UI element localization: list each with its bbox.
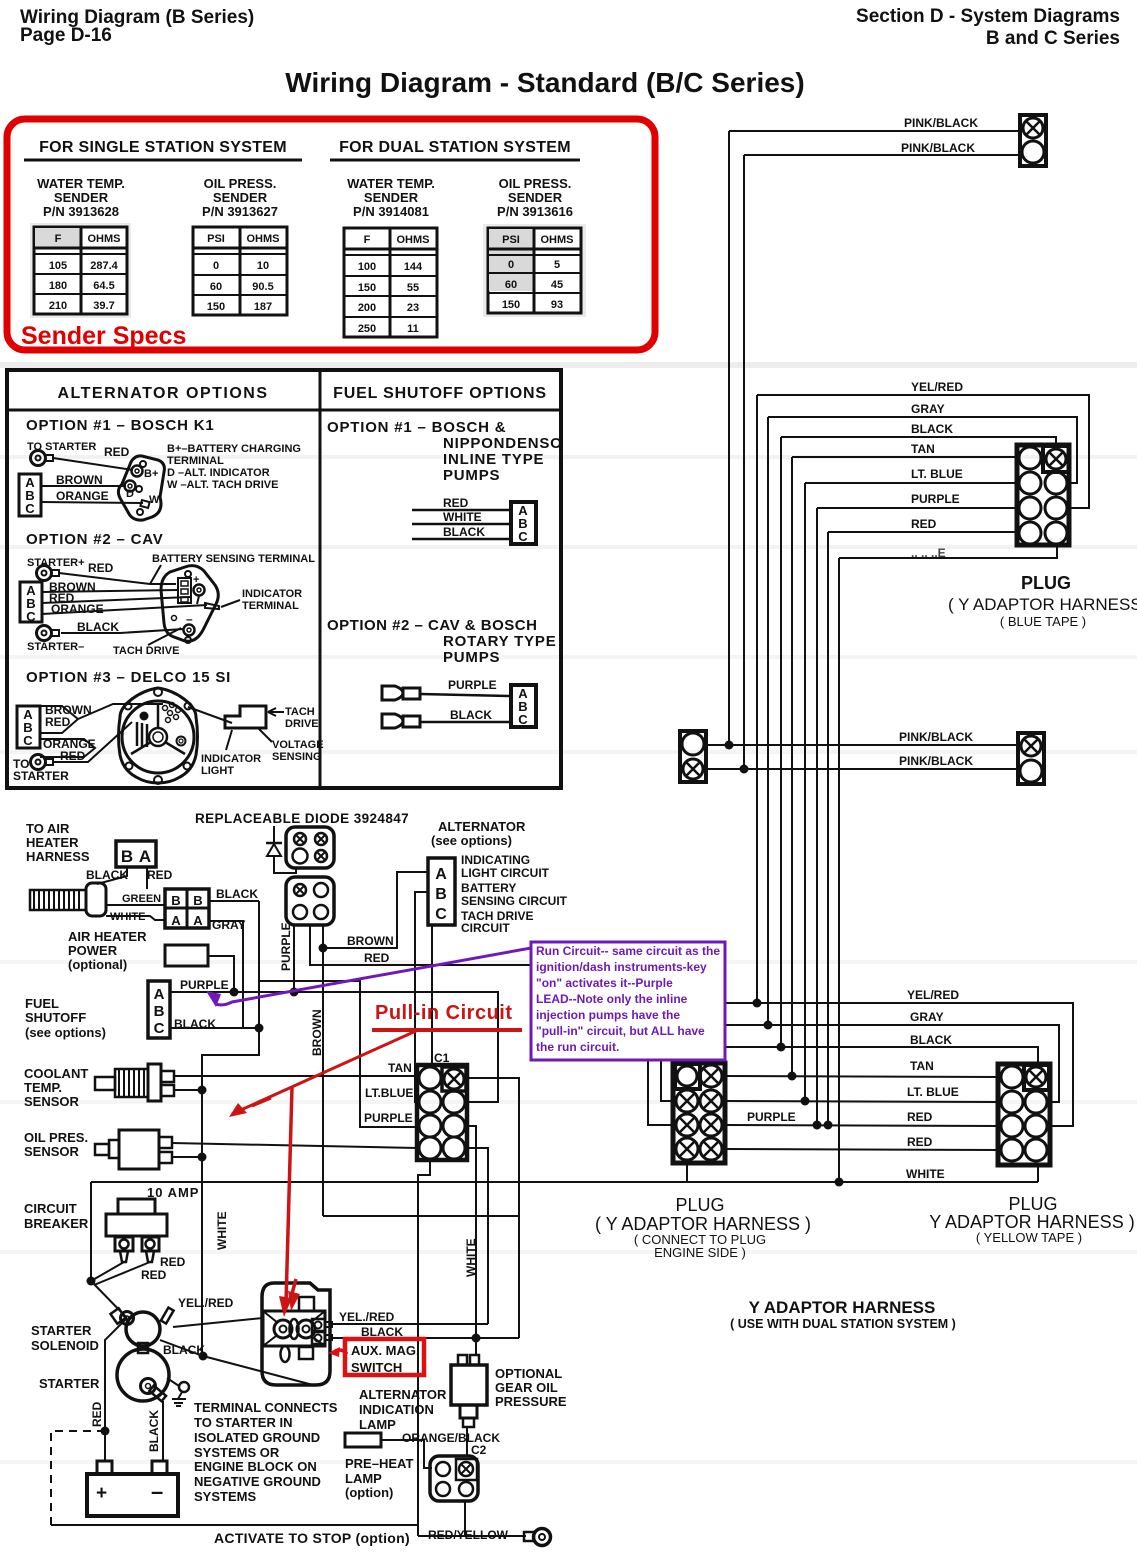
wire C2 bottom to red/yellow: [464, 1501, 466, 1536]
svg-text:200: 200: [358, 302, 376, 314]
ground terminal: [167, 1378, 189, 1406]
svg-text:–: –: [151, 1479, 163, 1504]
svg-text:OPTION #1 – BOSCH &: OPTION #1 – BOSCH &: [327, 419, 506, 436]
wire gray down: [209, 921, 243, 1028]
purple leader arrow to purple lead: [206, 948, 531, 1007]
battery: [87, 1461, 178, 1516]
wire pink/black top1: [729, 130, 1020, 132]
heading: FOR SINGLE STATION SYSTEM: [24, 139, 302, 160]
svg-text:SENDER: SENDER: [508, 190, 563, 205]
svg-text:OPTION #1 – BOSCH K1: OPTION #1 – BOSCH K1: [26, 417, 215, 434]
wire coolant top (tan): [174, 1075, 417, 1077]
wire breaker diagonals: [91, 1262, 150, 1318]
junction dot oil/common: [198, 1153, 207, 1162]
svg-text:BATTERY: BATTERY: [461, 881, 516, 895]
svg-text:39.7: 39.7: [93, 300, 114, 312]
svg-text:ALTERNATOR: ALTERNATOR: [438, 819, 526, 834]
svg-text:PURPLE: PURPLE: [448, 678, 497, 692]
svg-text:RED: RED: [364, 951, 390, 965]
label TACH DRIVE: [268, 706, 319, 730]
junction dot black common: [199, 1352, 208, 1361]
svg-text:STARTER: STARTER: [13, 769, 69, 783]
svg-text:C: C: [435, 906, 447, 923]
svg-text:93: 93: [551, 299, 563, 311]
svg-text:A: A: [154, 986, 165, 1003]
svg-text:SENDER: SENDER: [213, 190, 268, 205]
label: OIL PRESS. SENDER P/N 3913627: [202, 176, 278, 219]
connector ABC (option2): [20, 582, 42, 624]
wire yel/red lower: [725, 1003, 1073, 1126]
caption plug yellow tape: [929, 1194, 1134, 1245]
svg-text:BREAKER: BREAKER: [24, 1216, 89, 1231]
svg-text:STARTER+: STARTER+: [27, 557, 85, 569]
HEADER: [20, 6, 1120, 98]
svg-text:ENGINE BLOCK ON: ENGINE BLOCK ON: [194, 1459, 317, 1474]
svg-text:ACTIVATE TO STOP (option): ACTIVATE TO STOP (option): [214, 1530, 410, 1546]
wire into engine plug row3 from left: [648, 1058, 673, 1125]
svg-text:250: 250: [358, 323, 376, 335]
circuit breaker: [106, 1199, 167, 1262]
wire C1 row1 to black vertical: [466, 1078, 519, 1338]
svg-text:INDICATOR: INDICATOR: [242, 588, 302, 600]
svg-text:INDICATING: INDICATING: [461, 853, 530, 867]
svg-text:PRESSURE: PRESSURE: [495, 1394, 567, 1409]
optional gear oil pressure sender: [451, 1355, 487, 1427]
svg-text:WATER TEMP.: WATER TEMP.: [37, 176, 125, 191]
alternator Delco 15 SI body: [119, 688, 198, 784]
svg-text:OPTIONAL: OPTIONAL: [495, 1366, 562, 1381]
svg-text:180: 180: [49, 280, 67, 292]
svg-text:Sender Specs: Sender Specs: [21, 322, 186, 350]
wire black fuel shutoff: [170, 1027, 259, 1029]
svg-text:LIGHT: LIGHT: [201, 765, 234, 777]
svg-text:150: 150: [207, 301, 225, 313]
svg-text:WHITE: WHITE: [215, 1211, 229, 1250]
connector ABC (option1): [19, 474, 41, 516]
wire red starter+: [59, 573, 176, 584]
junction dot red battery: [101, 1427, 110, 1436]
svg-text:PURPLE: PURPLE: [180, 978, 229, 992]
connector C2: [430, 1456, 478, 1501]
svg-text:YEL/RED: YEL/RED: [911, 380, 963, 394]
svg-text:OIL PRESS.: OIL PRESS.: [499, 176, 572, 191]
svg-text:TACH: TACH: [285, 706, 315, 718]
label ALTERNATOR INDICATION LAMP: [359, 1387, 447, 1432]
svg-text:OIL PRESS.: OIL PRESS.: [204, 176, 277, 191]
junction dot red row3: [824, 1121, 833, 1130]
wire bundle vertical gray: [767, 417, 769, 1025]
svg-text:B: B: [171, 893, 180, 908]
wire brown: [41, 485, 126, 487]
wire brown vertical long: [322, 925, 324, 1216]
svg-text:STARTER: STARTER: [31, 1323, 92, 1338]
svg-text:C: C: [518, 712, 528, 727]
ring terminal starter-: [37, 626, 60, 641]
svg-text:PSI: PSI: [207, 233, 225, 245]
svg-text:LT.BLUE: LT.BLUE: [365, 1086, 413, 1100]
table: water temp sender 3914081 (4 rows): [344, 228, 437, 337]
aux mag switch: [262, 1283, 332, 1385]
wire lt blue upper: [805, 482, 1017, 484]
svg-text:B and C Series: B and C Series: [986, 28, 1120, 49]
svg-text:210: 210: [49, 300, 67, 312]
svg-text:RED: RED: [160, 1255, 186, 1269]
wire heater power to purple node: [208, 956, 234, 992]
SENDER SPECS BOX: [7, 119, 655, 350]
svg-text:C: C: [154, 1020, 165, 1037]
svg-text:CIRCUIT: CIRCUIT: [461, 921, 510, 935]
wire engine plug bottom to white row: [686, 1163, 688, 1182]
svg-text:RED: RED: [907, 1135, 933, 1149]
pre-heat lamp: [345, 1433, 381, 1447]
svg-text:PSI: PSI: [502, 234, 520, 246]
svg-text:BLACK: BLACK: [443, 525, 485, 539]
svg-text:Pull-in Circuit: Pull-in Circuit: [375, 1002, 513, 1024]
wire C1 row4 to yel/red vertical: [467, 1148, 488, 1324]
red arrow vertical to mag switch: [279, 1087, 300, 1317]
wire black lower: [725, 1047, 1038, 1064]
svg-text:injection pumps have the: injection pumps have the: [536, 1008, 680, 1022]
table: oil press sender 3913616: [483, 224, 586, 317]
svg-text:TAN: TAN: [388, 1061, 412, 1075]
wire solenoid to mag switch: [173, 1318, 263, 1327]
svg-text:the run circuit.: the run circuit.: [536, 1040, 619, 1054]
svg-text:144: 144: [404, 261, 423, 273]
wire C1 bottom to stop wire: [418, 1160, 430, 1536]
svg-text:WHITE: WHITE: [464, 1238, 478, 1277]
wire solenoid black to switch bottom: [160, 1340, 313, 1385]
connector mid-right 2-pin: [1018, 733, 1044, 784]
svg-text:( Y ADAPTOR HARNESS ): ( Y ADAPTOR HARNESS ): [595, 1214, 811, 1234]
svg-text:"pull-in" circuit, but ALL hav: "pull-in" circuit, but ALL have: [536, 1024, 705, 1038]
svg-text:GREEN: GREEN: [122, 893, 161, 905]
connector mid-left 2-pin: [680, 731, 706, 782]
svg-text:150: 150: [502, 299, 520, 311]
svg-text:OHMS: OHMS: [541, 234, 574, 246]
svg-text:OHMS: OHMS: [397, 234, 430, 246]
wire starter to battery minus: [162, 1401, 164, 1461]
svg-text:W –ALT. TACH DRIVE: W –ALT. TACH DRIVE: [167, 479, 278, 491]
svg-text:CIRCUIT: CIRCUIT: [24, 1201, 77, 1216]
wire black fuel1: [412, 538, 511, 541]
svg-text:10: 10: [257, 260, 269, 272]
wire purple diode down: [293, 925, 295, 992]
label FUEL SHUTOFF (see options): [25, 996, 106, 1040]
svg-text:C2: C2: [471, 1443, 487, 1457]
LEFT BOTTOM DIAGRAM: [24, 811, 687, 1546]
svg-text:RED: RED: [45, 715, 71, 729]
wire solenoid to battery plus: [105, 1318, 127, 1461]
svg-text:(optional): (optional): [68, 957, 127, 972]
wire alternator to tach drive block: [188, 707, 232, 723]
wire alternator B battery sensing down: [415, 892, 428, 1102]
svg-text:VOLTAGE: VOLTAGE: [272, 739, 324, 751]
svg-text:SENDER: SENDER: [364, 190, 419, 205]
label: WATER TEMP. SENDER P/N 3914081: [347, 176, 435, 219]
svg-text:23: 23: [407, 302, 419, 314]
red arrow diagonal to pull-in wire: [229, 1030, 418, 1117]
svg-text:RED: RED: [443, 496, 469, 510]
svg-text:SHUTOFF: SHUTOFF: [25, 1010, 86, 1025]
svg-text:BLACK: BLACK: [216, 887, 258, 901]
wire vertical pink/black drop1: [728, 131, 730, 745]
svg-text:SENSING: SENSING: [272, 751, 322, 763]
svg-text:BROWN: BROWN: [310, 1009, 324, 1056]
svg-text:LAMP: LAMP: [359, 1417, 396, 1432]
label VOLTAGE SENSING: [258, 728, 324, 763]
svg-text:"on" activates it--Purple: "on" activates it--Purple: [536, 976, 673, 990]
ring terminal starter+: [37, 566, 60, 581]
wire black mag switch: [332, 1337, 519, 1339]
replaceable diode connector (upper): [286, 827, 334, 868]
svg-text:(see options): (see options): [25, 1025, 106, 1040]
label STARTER SOLENOID: [31, 1323, 99, 1353]
svg-text:OHMS: OHMS: [88, 233, 121, 245]
starter motor: [117, 1349, 169, 1401]
svg-text:+: +: [96, 1483, 107, 1504]
table: oil press sender 3913627: [193, 227, 287, 315]
junction dot purple/heater: [230, 988, 239, 997]
caption plug engine side: [595, 1195, 811, 1260]
svg-text:OPTION #2 – CAV: OPTION #2 – CAV: [26, 531, 164, 548]
svg-text:FUEL: FUEL: [25, 996, 59, 1011]
svg-text:REPLACEABLE DIODE 3924847: REPLACEABLE DIODE 3924847: [195, 811, 409, 826]
svg-text:Section D - System Diagrams: Section D - System Diagrams: [856, 6, 1120, 27]
spade connector pair (purple): [382, 686, 420, 700]
svg-text:SOLENOID: SOLENOID: [31, 1338, 99, 1353]
svg-text:ALTERNATOR: ALTERNATOR: [359, 1387, 447, 1402]
svg-text:AUX. MAG.: AUX. MAG.: [351, 1343, 420, 1358]
wire black to tach drive: [61, 629, 184, 633]
svg-text:INDICATION: INDICATION: [359, 1402, 434, 1417]
svg-text:Wiring Diagram - Standard (B/C: Wiring Diagram - Standard (B/C Series): [285, 67, 804, 98]
svg-text:TERMINAL: TERMINAL: [167, 455, 224, 467]
svg-text:ORANGE: ORANGE: [56, 489, 109, 503]
svg-text:BLACK: BLACK: [910, 1033, 952, 1047]
svg-text:A: A: [139, 847, 151, 866]
wire bundle vertical red: [827, 532, 829, 1125]
wire oil sensor bottom: [172, 1156, 202, 1158]
red arrow to mag switch left: [328, 1347, 347, 1357]
red box AUX. MAG. SWITCH: [345, 1339, 424, 1375]
wire orange: [41, 502, 143, 503]
svg-text:GRAY: GRAY: [911, 402, 945, 416]
svg-text:LT. BLUE: LT. BLUE: [911, 467, 963, 481]
svg-text:PINK/BLACK: PINK/BLACK: [899, 730, 973, 744]
wire bundle brown/red chevron: [40, 706, 78, 733]
red underline pull-in: [372, 1028, 522, 1032]
junction dot white row: [835, 1178, 844, 1187]
svg-text:YEL./RED: YEL./RED: [339, 1310, 395, 1324]
svg-text:WHITE: WHITE: [443, 510, 482, 524]
svg-text:INDICATOR: INDICATOR: [201, 753, 261, 765]
svg-text:( USE WITH DUAL STATION SYSTEM: ( USE WITH DUAL STATION SYSTEM ): [730, 1317, 956, 1331]
svg-text:FOR DUAL STATION SYSTEM: FOR DUAL STATION SYSTEM: [339, 139, 571, 156]
leader tach drive: [148, 628, 181, 645]
svg-text:287.4: 287.4: [90, 260, 118, 272]
svg-text:D –ALT. INDICATOR: D –ALT. INDICATOR: [167, 467, 270, 479]
wire bundle vertical black: [780, 437, 782, 1047]
svg-text:SENDER: SENDER: [54, 190, 109, 205]
heading: FOR DUAL STATION SYSTEM: [330, 139, 580, 160]
wire gray upper: [768, 417, 1077, 483]
wire yellow plug bottom drop: [1037, 1165, 1039, 1182]
connector ABC (option3): [17, 706, 40, 748]
wire into engine plug row2 from left: [661, 1058, 673, 1101]
svg-text:P/N 3913627: P/N 3913627: [202, 204, 278, 219]
svg-text:150: 150: [358, 282, 376, 294]
wire red diode: [310, 925, 531, 965]
ring terminal stop: [524, 1529, 551, 1546]
wire bundle vertical purple: [816, 508, 818, 1125]
svg-text:D: D: [126, 488, 134, 500]
wire pink/black mid2: [706, 768, 1018, 770]
svg-text:B+–BATTERY CHARGING: B+–BATTERY CHARGING: [167, 443, 301, 455]
svg-text:ENGINE SIDE ): ENGINE SIDE ): [654, 1245, 746, 1260]
svg-text:AIR HEATER: AIR HEATER: [68, 929, 147, 944]
plug Y adaptor harness yellow tape (lower right): [998, 1064, 1050, 1165]
svg-text:RED: RED: [907, 1110, 933, 1124]
table: water temp sender 3913628: [30, 223, 131, 318]
label BATTERY SENSING CIRCUIT: [461, 881, 568, 908]
wire white row lower: [687, 1181, 1038, 1183]
label INDICATING LIGHT CIRCUIT: [461, 853, 550, 880]
connector ABC (alternator main): [428, 858, 455, 925]
wire black upper: [781, 437, 1056, 445]
legend option1: [167, 443, 301, 491]
svg-text:ignition/dash instruments-key: ignition/dash instruments-key: [536, 960, 707, 974]
wire orange chevron: [40, 739, 95, 757]
caption plug blue tape: [948, 573, 1137, 629]
svg-text:BROWN: BROWN: [56, 473, 103, 487]
svg-text:LT. BLUE: LT. BLUE: [907, 1085, 959, 1099]
svg-text:BLACK: BLACK: [77, 620, 119, 634]
svg-text:60: 60: [505, 279, 517, 291]
wire red to alternator B+: [53, 458, 133, 470]
svg-text:(option): (option): [345, 1485, 393, 1500]
label: WATER TEMP. SENDER P/N 3913628: [37, 176, 125, 219]
wire lt blue lower: [725, 1101, 998, 1102]
svg-text:PURPLE: PURPLE: [364, 1111, 413, 1125]
svg-text:A: A: [171, 913, 181, 928]
svg-text:C: C: [23, 733, 33, 748]
svg-text:( BLUE TAPE ): ( BLUE TAPE ): [1000, 614, 1086, 629]
svg-text:TERMINAL CONNECTS: TERMINAL CONNECTS: [194, 1400, 338, 1415]
label INDICATOR LIGHT: [201, 730, 261, 777]
junction dot breaker: [87, 1277, 96, 1286]
junction dot black fuel: [255, 1024, 264, 1033]
wire activate to stop: [51, 1524, 418, 1526]
label INDICATOR TERMINAL: [221, 588, 302, 612]
wire red fuel1: [412, 509, 511, 512]
spade connector pair (black): [382, 714, 420, 728]
options header divider: [7, 409, 561, 412]
svg-text:WATER TEMP.: WATER TEMP.: [347, 176, 435, 191]
svg-text:LEAD--Note only the inline: LEAD--Note only the inline: [536, 992, 688, 1006]
svg-text:STARTER–: STARTER–: [27, 641, 84, 653]
svg-text:(see options): (see options): [431, 833, 512, 848]
wire dashed activate-stop branch: [51, 1431, 105, 1525]
wire white upper: [839, 545, 1057, 558]
plug Y adaptor harness engine side (lower left): [673, 1063, 725, 1163]
svg-text:P/N 3914081: P/N 3914081: [353, 204, 429, 219]
wire tan upper: [792, 456, 1017, 458]
svg-text:RED: RED: [147, 868, 173, 882]
svg-text:FOR SINGLE STATION SYSTEM: FOR SINGLE STATION SYSTEM: [39, 139, 287, 156]
svg-text:B: B: [121, 847, 133, 866]
ring terminal to starter (option1): [31, 451, 54, 466]
svg-text:HEATER: HEATER: [26, 835, 79, 850]
svg-text:SENSING CIRCUIT: SENSING CIRCUIT: [461, 894, 568, 908]
svg-text:B: B: [193, 893, 202, 908]
svg-text:COOLANT: COOLANT: [24, 1066, 88, 1081]
wire C1 row3 to white vertical: [467, 1126, 476, 1355]
connector B A (air heater harness): [116, 841, 156, 867]
wire red/yellow: [418, 1535, 526, 1537]
svg-text:YEL/RED: YEL/RED: [907, 988, 959, 1002]
plug Y adaptor harness (blue tape): [1017, 445, 1069, 545]
svg-text:100: 100: [358, 261, 376, 273]
caption Y adaptor harness bottom: [730, 1298, 956, 1331]
air heater plug (threaded): [30, 883, 106, 916]
svg-text:SENSOR: SENSOR: [24, 1144, 80, 1159]
svg-text:TAN: TAN: [910, 1059, 934, 1073]
wire bundle vertical lt blue: [804, 483, 806, 1101]
svg-text:TAN: TAN: [911, 442, 935, 456]
wire branch to C1 purple row3: [259, 981, 417, 1127]
label COOLANT TEMP. SENSOR: [24, 1066, 88, 1109]
title: fuel OPTION #1: [327, 419, 563, 484]
svg-text:SYSTEMS: SYSTEMS: [194, 1489, 256, 1504]
wire tan lower: [725, 1076, 998, 1077]
svg-text:GEAR OIL: GEAR OIL: [495, 1380, 558, 1395]
svg-text:B: B: [154, 1003, 165, 1020]
wire red to alternator lower: [53, 722, 132, 762]
svg-text:TO STARTER IN: TO STARTER IN: [194, 1415, 292, 1430]
svg-text:NIPPONDENSO: NIPPONDENSO: [443, 435, 563, 452]
leader battery sensing: [150, 565, 161, 584]
alternator Bosch K1 body: [118, 456, 164, 520]
wire pink/black top2: [744, 154, 1020, 156]
wire red row4 lower: [725, 1149, 998, 1150]
replaceable diode connector (lower): [286, 877, 334, 925]
junction dot black lower: [777, 1043, 786, 1052]
svg-text:SWITCH: SWITCH: [351, 1360, 402, 1375]
svg-text:F: F: [364, 234, 371, 246]
svg-text:POWER: POWER: [68, 943, 118, 958]
wire bundle vertical yel/red: [756, 395, 758, 1003]
svg-text:RED: RED: [911, 517, 937, 531]
svg-text:5: 5: [554, 259, 560, 271]
OPTIONS BOX: [7, 370, 563, 788]
svg-text:INLINE TYPE: INLINE TYPE: [443, 451, 544, 468]
wire purple run circuit: [170, 992, 498, 1102]
svg-text:DRIVE: DRIVE: [285, 718, 319, 730]
wire white (air heater): [106, 916, 165, 920]
label OPTIONAL GEAR OIL PRESSURE: [495, 1366, 567, 1409]
purple run circuit note box: [531, 942, 725, 1060]
junction dot yel/red lower: [753, 999, 762, 1008]
wire bundle vertical tan: [791, 457, 793, 1076]
wire lamp to C2: [381, 1440, 432, 1468]
svg-text:187: 187: [254, 301, 272, 313]
wire BA-B to heater: [97, 867, 127, 884]
starter solenoid: [110, 1308, 173, 1353]
svg-text:ALTERNATOR OPTIONS: ALTERNATOR OPTIONS: [58, 385, 269, 402]
svg-text:RED: RED: [60, 749, 86, 763]
svg-text:SENSOR: SENSOR: [24, 1094, 80, 1109]
svg-text:C: C: [26, 609, 36, 624]
